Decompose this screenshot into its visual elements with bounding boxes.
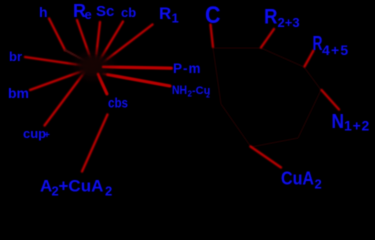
wire to cbs (bright re-draw) <box>98 74 107 94</box>
hub dark halo <box>67 46 121 86</box>
wire ring edge F-E <box>251 138 298 147</box>
bond C <box>211 25 214 48</box>
wire to cup <box>45 71 86 126</box>
hub dark centre blob <box>76 54 111 79</box>
wire to h (dark inner part) <box>65 50 89 63</box>
svg-text:1: 1 <box>172 11 179 26</box>
wire ring edge B-C <box>261 48 304 67</box>
svg-text:br: br <box>9 49 22 64</box>
wire ring edge D-F <box>298 90 321 138</box>
svg-text:1+2: 1+2 <box>344 118 370 134</box>
wire ring edge E-G <box>221 104 251 147</box>
svg-text:2+3: 2+3 <box>278 15 300 30</box>
svg-text:R: R <box>159 4 171 23</box>
bond R4+5 <box>305 51 314 67</box>
wire to cb <box>99 22 124 63</box>
svg-text:cup: cup <box>23 126 46 141</box>
svg-text:R: R <box>264 5 278 28</box>
wire to Re <box>77 20 92 63</box>
svg-text:2: 2 <box>206 93 210 100</box>
svg-text:h: h <box>39 4 48 20</box>
bright red bonds on right molecule <box>211 25 340 168</box>
svg-text:Sc: Sc <box>96 3 114 20</box>
wire to P-m <box>102 67 172 68</box>
svg-text:bm: bm <box>8 85 29 101</box>
wire ring edge C-D <box>304 67 321 90</box>
bond N1+2 <box>322 90 340 110</box>
svg-text:4+5: 4+5 <box>322 42 349 58</box>
bond CuA2 <box>251 147 282 168</box>
svg-text:cbs: cbs <box>108 95 128 111</box>
wire to cbs <box>97 73 107 95</box>
svg-text:2: 2 <box>315 177 322 192</box>
wire to P-m (bright re-draw) <box>98 67 172 94</box>
svg-text:cb: cb <box>121 5 136 20</box>
bright red spokes of left hub <box>25 19 172 172</box>
bond R2+3 <box>261 29 274 48</box>
svg-text:CuA: CuA <box>281 169 314 189</box>
svg-text:2: 2 <box>105 184 112 199</box>
wire to R1 <box>102 25 153 64</box>
wire ring edge G-A <box>213 48 221 104</box>
wire from A2+CuA2 up <box>82 115 108 172</box>
svg-text:A: A <box>40 177 52 196</box>
svg-text:P-m: P-m <box>173 61 202 76</box>
wire to br <box>25 57 87 66</box>
svg-text:e: e <box>85 7 92 22</box>
svg-text:+: + <box>44 130 50 141</box>
wire to h (bright outer part) <box>49 19 65 51</box>
ring (dark maroon polygon, barely visible) <box>213 48 321 147</box>
svg-text:+CuA: +CuA <box>59 177 104 196</box>
svg-text:N: N <box>332 111 345 133</box>
wire to Sc <box>96 22 101 62</box>
wire to NH2-Cu <box>103 74 170 87</box>
wire to NH2-Cu (bright re-draw) <box>108 75 171 86</box>
svg-text:NH: NH <box>172 85 187 97</box>
wire ring edge A-B <box>213 47 261 49</box>
wire to bm <box>30 70 87 91</box>
svg-text:C: C <box>205 2 221 29</box>
